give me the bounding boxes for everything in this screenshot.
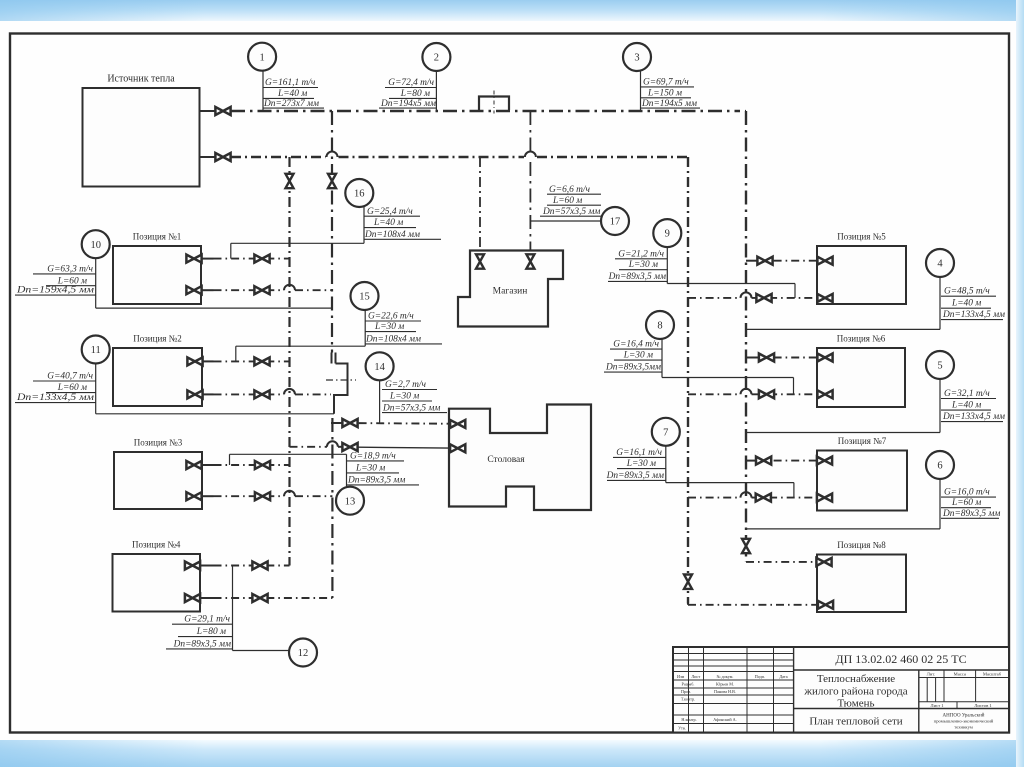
svg-text:Dn=108x4 мм: Dn=108x4 мм	[365, 335, 421, 345]
box 2 supply pipe	[214, 360, 290, 362]
svg-text:L=150 м: L=150 м	[647, 88, 682, 98]
section marker circle 16	[345, 179, 373, 207]
box 2 supply stub	[202, 360, 214, 362]
svg-text:8: 8	[657, 321, 662, 332]
consumer box Pozicija 3	[114, 452, 202, 509]
section marker circle 7	[652, 418, 680, 446]
box 1 supply pipe	[214, 258, 290, 260]
box 1 return stub	[201, 289, 214, 291]
hop over supply main on box 6 return pipe	[741, 389, 752, 394]
svg-text:Dn=273x7 мм: Dn=273x7 мм	[263, 99, 319, 109]
svg-text:Магазин: Магазин	[493, 287, 528, 297]
box 4 supply pipe	[214, 565, 290, 567]
svg-text:15: 15	[359, 292, 370, 303]
supply main pipe (horizontal)	[231, 110, 740, 112]
expansion compensator on supply main	[479, 97, 509, 111]
box 2 return stub	[202, 393, 214, 395]
box 1 supply stub	[201, 258, 214, 260]
svg-text:Позиция №7: Позиция №7	[838, 436, 887, 446]
svg-text:Dn=108x4 мм: Dn=108x4 мм	[364, 230, 420, 240]
valve at box 1 top connection	[186, 255, 201, 263]
svg-text:L=60 м: L=60 м	[951, 498, 981, 508]
valve on box 3 supply pipe	[255, 461, 270, 469]
svg-text:Пров.: Пров.	[681, 689, 691, 694]
section marker circle 15	[351, 282, 379, 310]
leader and data label 4	[939, 277, 941, 329]
box 7 return pipe (west)	[688, 497, 741, 499]
shop return service line x=480	[479, 157, 481, 254]
valve on box 1 supply pipe	[254, 255, 269, 263]
shop supply service line x=530 (lower)	[529, 162, 531, 254]
leader and data label 16	[363, 207, 365, 243]
svg-text:6: 6	[937, 461, 942, 472]
valve on box 4 supply pipe	[252, 562, 267, 570]
svg-text:Dn=194x5 мм: Dn=194x5 мм	[380, 99, 436, 109]
valve at box 7 connection (bottom)	[817, 494, 832, 502]
svg-text:Тюмень: Тюмень	[838, 698, 875, 710]
svg-text:11: 11	[91, 345, 101, 356]
box 7 return pipe (east)	[752, 497, 818, 499]
canteen supply takeoff	[331, 422, 341, 424]
box 4 return pipe	[214, 597, 333, 599]
supply stub from source	[200, 110, 215, 112]
svg-text:G=21,2 т/ч: G=21,2 т/ч	[618, 249, 664, 259]
valve at box 6 connection (top)	[817, 354, 832, 362]
leader and data label 5	[939, 379, 941, 433]
hop over riser x=289 on box 1 return pipe	[284, 285, 295, 291]
svg-text:Dn=57x3,5 мм: Dn=57x3,5 мм	[542, 207, 600, 217]
box 5 return pipe (west)	[688, 297, 741, 299]
valve at shop entry (right)	[526, 254, 534, 268]
consumer box Pozicija 8	[817, 555, 906, 613]
svg-text:G=72,4 т/ч: G=72,4 т/ч	[388, 78, 434, 88]
return main pipe (horizontal, segment 3)	[537, 156, 688, 158]
svg-text:4: 4	[937, 259, 943, 270]
section marker circle 2	[422, 43, 450, 71]
distribution riser x=332 (upper)	[331, 111, 333, 353]
return main pipe (right vertical)	[687, 157, 689, 604]
svg-text:L=60 м: L=60 м	[552, 196, 582, 206]
box 3 supply pipe	[214, 464, 290, 466]
valve on box 6 supply pipe	[759, 354, 774, 362]
svg-text:2: 2	[434, 53, 439, 64]
svg-text:Дата: Дата	[779, 674, 787, 679]
riser x=332 offset jog	[332, 353, 348, 414]
leader and data label 17	[530, 220, 601, 222]
valve at box 2 bottom connection	[187, 390, 202, 398]
return main pipe (horizontal, segment 2)	[339, 156, 525, 158]
svg-text:G=16,0 т/ч: G=16,0 т/ч	[944, 488, 990, 498]
valve at box 8 connection (bottom)	[818, 601, 833, 609]
svg-text:5: 5	[937, 361, 942, 372]
svg-text:L=80 м: L=80 м	[196, 627, 226, 637]
hop over riser x=332 on canteen return pipe	[327, 441, 338, 446]
valve on source return outlet	[215, 153, 230, 161]
valve at box 5 connection (bottom)	[817, 294, 832, 302]
leader and data label 1	[262, 71, 264, 112]
valve on box 3 return pipe	[255, 492, 270, 500]
svg-text:ДП 13.02.02 460 02 25 ТС: ДП 13.02.02 460 02 25 ТС	[835, 652, 966, 666]
box 5 supply takeoff	[746, 260, 756, 262]
svg-text:L=30 м: L=30 м	[623, 351, 653, 361]
svg-text:G=16,4 т/ч: G=16,4 т/ч	[613, 340, 659, 350]
box 6 return pipe (west)	[688, 393, 741, 395]
consumer box Pozicija 2	[113, 348, 202, 406]
consumer box Pozicija 7	[817, 451, 907, 511]
hop over riser x=289 on box 3 return pipe	[284, 491, 295, 497]
svg-text:Афонский А.: Афонский А.	[713, 717, 736, 722]
svg-text:L=40 м: L=40 м	[951, 401, 981, 411]
section marker circle 10	[82, 230, 110, 258]
svg-text:Лист 1: Лист 1	[930, 703, 944, 708]
svg-text:Н.контр.: Н.контр.	[681, 717, 696, 722]
svg-text:Dn=133x4,5 мм: Dn=133x4,5 мм	[942, 310, 1005, 320]
leader and data label 8	[661, 339, 663, 378]
box 3 return pipe (east)	[295, 495, 332, 497]
svg-text:L=40 м: L=40 м	[951, 299, 981, 309]
crossing hop on return main at x=530	[525, 152, 536, 158]
svg-text:G=32,1 т/ч: G=32,1 т/ч	[944, 389, 990, 399]
svg-text:G=22,6 т/ч: G=22,6 т/ч	[368, 312, 414, 322]
svg-text:Теплоснабжение: Теплоснабжение	[817, 673, 895, 685]
svg-text:Разраб.: Разраб.	[682, 682, 695, 687]
svg-text:L=30 м: L=30 м	[626, 459, 656, 469]
svg-text:Позиция №4: Позиция №4	[132, 540, 181, 550]
box 7 supply takeoff	[746, 460, 756, 462]
svg-text:Позиция №2: Позиция №2	[133, 334, 181, 344]
section marker circle 14	[366, 352, 394, 380]
svg-text:Dn=89x3,5 мм: Dn=89x3,5 мм	[608, 272, 666, 282]
valve at box 4 top connection	[185, 562, 200, 570]
leader and data label 14	[379, 380, 381, 423]
crossing hop on return main at x=332	[327, 152, 338, 158]
valve at canteen return entry	[450, 444, 465, 452]
box 6 supply pipe	[756, 357, 817, 359]
svg-text:Лист: Лист	[691, 674, 700, 679]
svg-text:3: 3	[634, 53, 639, 64]
title block (GOST stamp)	[673, 647, 1009, 733]
valve on box 4 return pipe	[252, 594, 267, 602]
svg-text:План тепловой сети: План тепловой сети	[809, 716, 902, 728]
section marker circle 13	[336, 487, 364, 515]
hop over riser x=289 on box 2 return pipe	[284, 389, 295, 395]
svg-text:Листов 1: Листов 1	[974, 703, 992, 708]
canteen return pipe (solid run)	[359, 446, 450, 449]
svg-text:Dn=57x3,5 мм: Dn=57x3,5 мм	[382, 403, 440, 413]
leader and data label 2	[435, 71, 437, 112]
consumer box Pozicija 6	[817, 348, 905, 407]
leader and data label 3	[640, 71, 642, 112]
svg-text:L=40 м: L=40 м	[277, 89, 307, 99]
return main pipe (horizontal, segment 1)	[231, 156, 326, 158]
box 7 supply pipe	[756, 460, 817, 462]
valve at box 3 bottom connection	[186, 492, 201, 500]
svg-text:G=40,7 т/ч: G=40,7 т/ч	[47, 372, 93, 382]
svg-text:Изм: Изм	[677, 674, 685, 679]
svg-text:L=80 м: L=80 м	[400, 89, 430, 99]
box 2 return pipe (west)	[214, 393, 285, 395]
consumer box Pozicija 5	[817, 246, 906, 304]
distribution riser x=289 (dash-dot)	[288, 157, 290, 566]
box 2 return pipe (east)	[295, 393, 331, 395]
section marker circle 8	[646, 311, 674, 339]
svg-text:Т.контр.: Т.контр.	[681, 697, 695, 702]
svg-text:Лит.: Лит.	[927, 672, 935, 677]
box 6 supply takeoff	[746, 357, 756, 359]
svg-text:Масштаб: Масштаб	[983, 672, 1002, 677]
svg-text:L=30 м: L=30 м	[374, 322, 404, 332]
svg-text:Столовая: Столовая	[487, 455, 525, 465]
svg-text:Позиция №6: Позиция №6	[837, 334, 886, 344]
leader and data label 13	[230, 453, 347, 455]
svg-text:Dn=89x3,5 мм: Dn=89x3,5 мм	[347, 476, 405, 486]
svg-text:Масса: Масса	[954, 672, 966, 677]
return stub from source	[200, 156, 215, 158]
svg-text:17: 17	[610, 217, 621, 228]
section marker circle 4	[926, 249, 954, 277]
svg-text:Dn=89x3,5 мм: Dn=89x3,5 мм	[942, 509, 1000, 519]
section marker circle 3	[623, 43, 651, 71]
svg-text:жилого района города: жилого района города	[803, 686, 907, 698]
svg-text:10: 10	[90, 240, 101, 251]
svg-text:L=40 м: L=40 м	[373, 218, 403, 228]
svg-text:Dn=133x4,5 мм: Dn=133x4,5 мм	[942, 412, 1005, 422]
shop supply service line x=530 (upper)	[529, 111, 531, 152]
box 3 return pipe (west)	[214, 495, 285, 497]
valve on box 7 supply pipe	[756, 457, 771, 465]
distribution riser x=332 (lower)	[331, 418, 333, 598]
svg-text:G=18,9 т/ч: G=18,9 т/ч	[350, 452, 396, 462]
svg-text:Источник тепла: Источник тепла	[107, 74, 175, 85]
svg-text:G=69,7 т/ч: G=69,7 т/ч	[643, 78, 689, 88]
valve at box 5 connection (top)	[817, 257, 832, 265]
svg-text:Позиция №8: Позиция №8	[837, 540, 886, 550]
svg-text:9: 9	[665, 229, 670, 240]
svg-text:G=29,1 т/ч: G=29,1 т/ч	[184, 615, 230, 625]
valve on supply main above box 8 takeoff	[742, 539, 750, 553]
svg-text:Dn=89x3,5мм: Dn=89x3,5мм	[605, 363, 661, 373]
valve at box 7 connection (top)	[817, 457, 832, 465]
canteen return takeoff	[290, 446, 328, 448]
leader and data label 15	[364, 310, 366, 346]
valve on box 6 return pipe	[759, 390, 774, 398]
svg-text:7: 7	[663, 427, 668, 438]
svg-text:L=60 м: L=60 м	[57, 383, 87, 393]
section marker circle 1	[248, 43, 276, 71]
valve on canteen return pipe	[342, 443, 357, 451]
consumer box Pozicija 4	[113, 554, 201, 612]
valve on box 5 return pipe	[756, 294, 771, 302]
box 4 return stub	[200, 597, 214, 599]
svg-text:Позиция №3: Позиция №3	[134, 438, 183, 448]
svg-text:промышленно-экономический: промышленно-экономический	[934, 719, 994, 724]
svg-text:G=2,7 т/ч: G=2,7 т/ч	[385, 380, 427, 390]
box 3 supply stub	[202, 464, 214, 466]
shop building (Magazin)	[458, 251, 563, 327]
valve on box 2 return pipe	[254, 390, 269, 398]
box 5 return pipe (east)	[752, 297, 818, 299]
valve at box 2 top connection	[187, 357, 202, 365]
svg-text:техникум: техникум	[954, 725, 973, 730]
box 1 return pipe (east)	[295, 289, 332, 291]
valve on return main above box 8 takeoff	[684, 575, 692, 589]
supply main pipe (right vertical)	[745, 111, 747, 562]
box 5 supply pipe	[756, 260, 817, 262]
hop over supply main on box 7 return pipe	[741, 492, 752, 497]
box 8 return pipe	[688, 604, 817, 606]
svg-text:Dn=89x3,5 мм: Dn=89x3,5 мм	[173, 639, 231, 649]
box 3 return stub	[202, 495, 214, 497]
svg-text:12: 12	[298, 648, 309, 659]
leader and data label 12	[232, 566, 234, 651]
section marker circle 12	[289, 639, 317, 667]
box 8 supply pipe	[746, 561, 817, 563]
svg-text:16: 16	[354, 189, 365, 200]
leader and data label 6	[939, 479, 941, 529]
section marker circle 5	[926, 351, 954, 379]
valve at box 4 bottom connection	[185, 594, 200, 602]
svg-text:G=16,1 т/ч: G=16,1 т/ч	[616, 448, 662, 458]
valve on box 5 supply pipe	[757, 257, 772, 265]
svg-text:Юрьев М.: Юрьев М.	[716, 682, 734, 687]
svg-text:L=30 м: L=30 м	[389, 392, 419, 402]
box 4 supply stub	[200, 565, 214, 567]
valve at box 3 top connection	[186, 461, 201, 469]
box 6 return pipe (east)	[752, 393, 818, 395]
svg-text:G=25,4 т/ч: G=25,4 т/ч	[367, 207, 413, 217]
heat source building	[83, 88, 200, 187]
svg-text:Панова Н.В.: Панова Н.В.	[714, 689, 736, 694]
section marker circle 9	[653, 219, 681, 247]
valve at canteen supply entry	[450, 420, 465, 428]
valve on source supply outlet	[215, 107, 230, 115]
valve on canteen supply pipe	[342, 419, 357, 427]
valve on riser x=289	[286, 174, 294, 188]
svg-text:Позиция №5: Позиция №5	[837, 232, 886, 242]
canteen building (Stolovaja)	[449, 405, 591, 511]
svg-text:13: 13	[345, 496, 356, 507]
leader and data label 11	[95, 364, 97, 414]
svg-text:Dn=89x3,5 мм: Dn=89x3,5 мм	[606, 471, 664, 481]
svg-text:Dn=194x5 мм: Dn=194x5 мм	[641, 99, 697, 109]
section marker circle 17	[601, 207, 629, 235]
svg-text:Позиция №1: Позиция №1	[133, 232, 181, 242]
svg-text:L=30 м: L=30 м	[355, 464, 385, 474]
svg-text:1: 1	[259, 52, 264, 63]
valve at box 1 bottom connection	[186, 286, 201, 294]
leader and data label 7	[665, 446, 667, 483]
svg-text:G=48,5 т/ч: G=48,5 т/ч	[944, 287, 990, 297]
box 1 return pipe (west)	[214, 289, 285, 291]
tick across jog	[326, 379, 356, 381]
valve on box 2 supply pipe	[254, 357, 269, 365]
svg-text:Подп.: Подп.	[755, 674, 765, 679]
svg-text:G=161,1 т/ч: G=161,1 т/ч	[265, 78, 316, 88]
valve at box 8 connection (top)	[816, 558, 831, 566]
valve on box 7 return pipe	[756, 494, 771, 502]
svg-text:G=63,3 т/ч: G=63,3 т/ч	[47, 265, 93, 275]
svg-text:Утв.: Утв.	[678, 726, 686, 731]
section marker circle 11	[82, 336, 110, 364]
leader and data label 9	[666, 247, 668, 284]
hop over supply main on box 5 return pipe	[741, 292, 752, 298]
svg-text:Dn=133x4,5 мм: Dn=133x4,5 мм	[16, 393, 94, 403]
svg-text:№ докум.: № докум.	[717, 674, 734, 679]
valve on box 1 return pipe	[254, 286, 269, 294]
consumer box Pozicija 1	[113, 246, 201, 304]
svg-text:L=30 м: L=30 м	[628, 260, 658, 270]
svg-text:Dn=159x4,5 мм: Dn=159x4,5 мм	[16, 286, 94, 296]
svg-text:G=6,6 т/ч: G=6,6 т/ч	[549, 185, 591, 195]
valve at shop entry (left)	[476, 254, 484, 268]
valve at box 6 connection (bottom)	[817, 390, 832, 398]
leader and data label 10	[95, 258, 97, 308]
section marker circle 6	[926, 451, 954, 479]
svg-text:14: 14	[374, 362, 385, 373]
valve on riser x=332	[328, 174, 336, 188]
canteen supply pipe	[341, 422, 449, 425]
